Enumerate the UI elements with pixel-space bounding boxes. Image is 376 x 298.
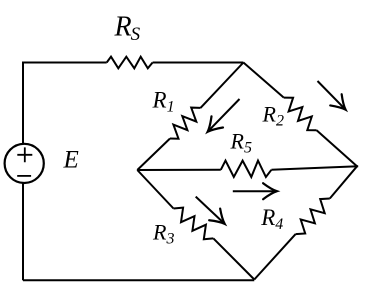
voltage source E (circle with plus and minus) <box>5 144 44 183</box>
current arrow at R2 (pointing down-right) <box>318 81 352 115</box>
wire: left vertical segment from top-left corner down to source top <box>22 63 24 144</box>
label R5 <box>230 129 252 157</box>
resistor R5 (zigzag) <box>221 161 272 177</box>
svg-text:R3: R3 <box>152 220 174 248</box>
current arrow at R1 (pointing down-left) <box>202 99 240 137</box>
current arrow at R5 (pointing right) <box>233 183 277 199</box>
label R2 <box>262 102 284 130</box>
svg-text:E: E <box>63 147 79 174</box>
svg-text:RS: RS <box>114 12 141 46</box>
wire: R3 to bottom node <box>213 238 254 279</box>
wire: R5 to right node <box>271 166 358 170</box>
resistor R3 (zigzag) <box>174 208 214 240</box>
label RS <box>114 12 141 46</box>
wire: R2 to right node <box>317 130 357 166</box>
resistor R4 (zigzag) <box>296 199 330 235</box>
wire: R4 to bottom node <box>254 234 295 279</box>
svg-text:R4: R4 <box>260 205 283 233</box>
svg-text:R1: R1 <box>152 88 175 116</box>
label R4 <box>260 205 283 233</box>
resistor RS (zigzag) <box>107 57 153 69</box>
svg-text:R2: R2 <box>262 102 284 130</box>
wire: R1 to left node <box>137 139 170 171</box>
wire: top horizontal from R_S to top node <box>153 62 244 64</box>
label R3 <box>152 220 174 248</box>
label R1 <box>152 88 175 116</box>
wire: top node to R2 <box>243 63 283 98</box>
wire: left node to R5 <box>137 169 221 171</box>
wire: left node to R3 <box>137 170 173 209</box>
current arrow at R3 (pointing down-right) <box>196 197 230 230</box>
wire: right node to R4 <box>330 166 357 198</box>
resistor R1 (zigzag) <box>170 108 201 139</box>
wire: left vertical segment from source bottom to bottom-left corner <box>22 183 24 280</box>
label E <box>63 147 79 174</box>
wire: bottom horizontal from bottom node to bottom-left corner <box>23 279 254 281</box>
resistor R2 (zigzag) <box>284 98 317 131</box>
wire: top horizontal from top-left corner to R_S <box>22 62 107 64</box>
wire: top node to R1 <box>201 63 244 108</box>
svg-text:R5: R5 <box>230 129 252 157</box>
